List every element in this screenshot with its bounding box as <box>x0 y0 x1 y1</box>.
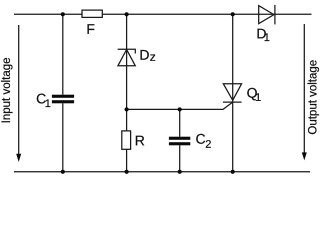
svg-text:D: D <box>139 47 149 63</box>
junction top C1 node <box>61 12 65 16</box>
svg-text:Output voltage: Output voltage <box>307 60 319 135</box>
capacitor C2 <box>169 137 190 146</box>
svg-text:Input voltage: Input voltage <box>1 57 13 123</box>
wire bottom rail <box>14 171 310 173</box>
junction bottom C2 node <box>178 170 182 174</box>
fuse F <box>82 10 102 17</box>
wire C2 branch lower <box>179 145 181 172</box>
wire top rail <box>14 13 312 15</box>
svg-text:1: 1 <box>264 32 270 44</box>
svg-text:1: 1 <box>255 92 261 104</box>
zener diode Dz <box>118 49 136 66</box>
wire Dz-R branch <box>126 14 128 172</box>
svg-text:2: 2 <box>205 139 211 151</box>
svg-text:F: F <box>86 21 95 37</box>
svg-text:C: C <box>195 131 205 147</box>
input voltage arrow <box>16 25 21 162</box>
junction top Dz node <box>125 12 129 16</box>
wire Q1 branch <box>232 14 234 172</box>
wire C1 branch upper <box>62 14 64 94</box>
junction bottom C1 node <box>61 170 65 174</box>
junction bottom R node <box>125 170 129 174</box>
junction bottom Q1 node <box>231 170 235 174</box>
junction top Q1 node <box>231 12 235 16</box>
output voltage arrow <box>302 24 307 160</box>
diode D1 <box>259 5 275 25</box>
capacitor C1 <box>52 95 74 104</box>
resistor R <box>122 131 131 149</box>
wire C1 branch lower <box>62 103 64 172</box>
junction gate C2 node <box>178 107 182 111</box>
svg-text:1: 1 <box>45 98 51 110</box>
wire gate net <box>127 102 233 109</box>
junction gate Dz node <box>125 107 129 111</box>
thyristor Q1 <box>223 84 242 102</box>
svg-text:R: R <box>135 132 145 148</box>
svg-text:z: z <box>150 50 156 64</box>
wire C2 branch upper <box>179 109 181 136</box>
